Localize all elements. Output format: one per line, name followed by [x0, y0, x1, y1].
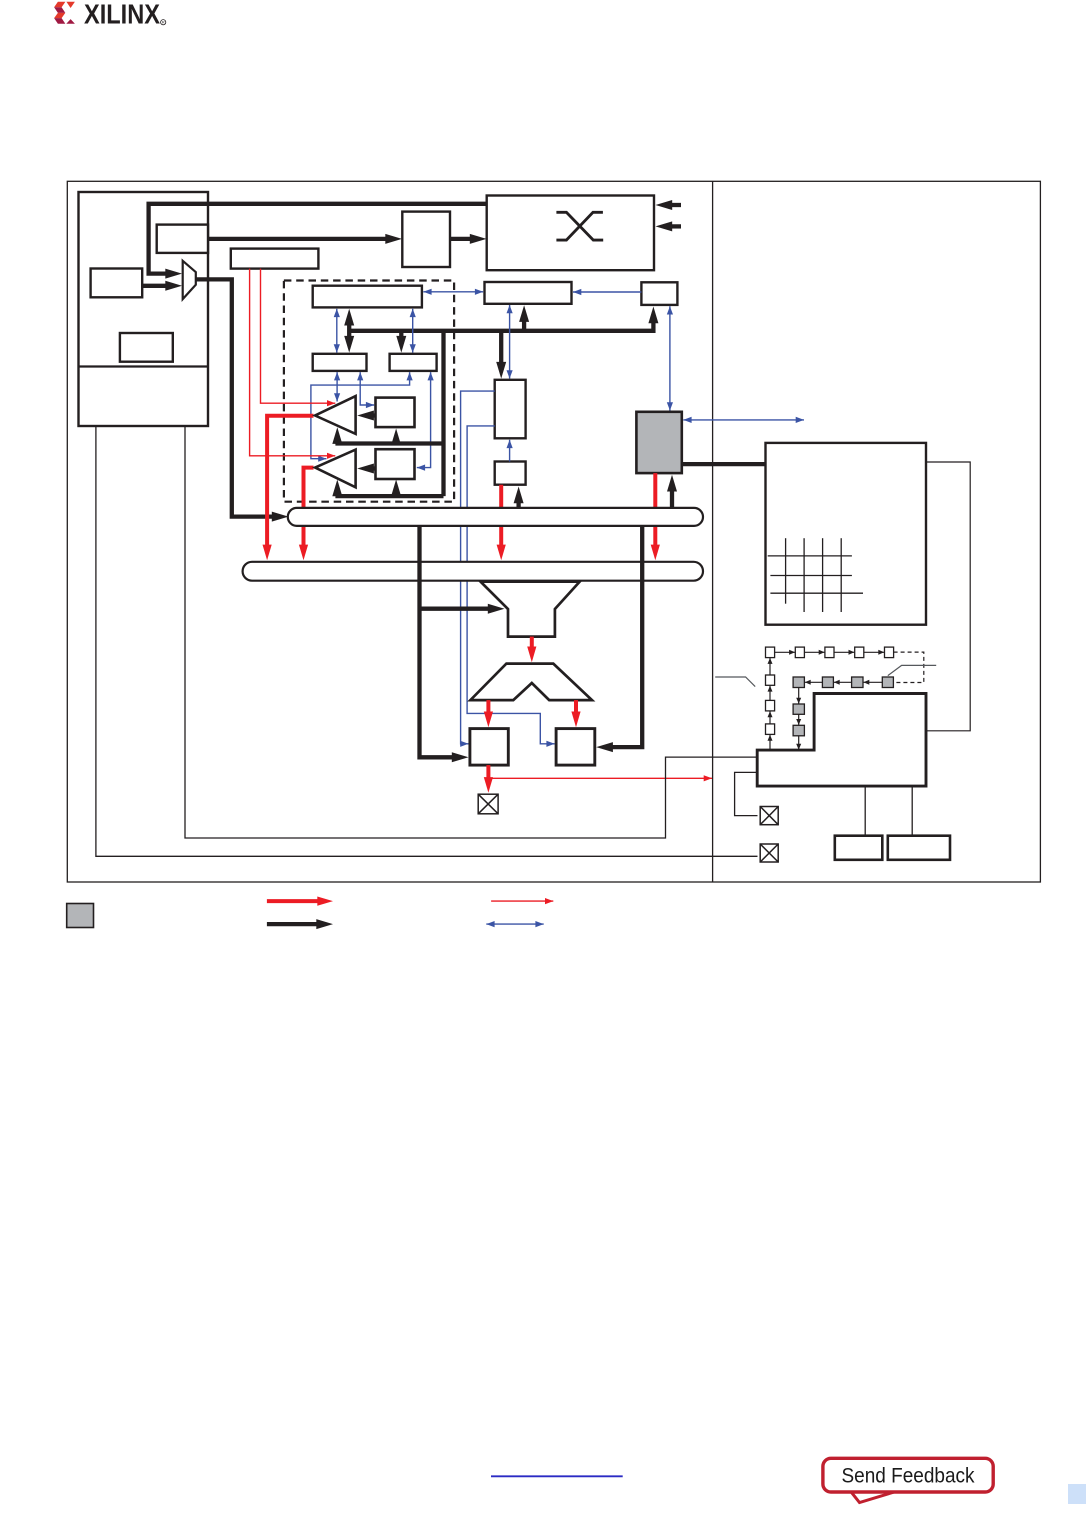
block: input buffer box inside left block	[91, 269, 143, 298]
wire: crossbar to clock mux input 1	[149, 204, 487, 274]
node: gray buffer chain vertical column	[793, 704, 804, 736]
wire: blue net A tall divider to output box left	[461, 391, 495, 744]
wire: dashed connector from white chain to gray chain	[894, 652, 924, 682]
Xilinx logo wordmark	[84, 0, 166, 30]
legend: thin red arrow sample	[491, 900, 553, 902]
wire: red arrow small divider down to bus 2	[499, 485, 503, 546]
legend: gray block swatch	[67, 904, 94, 928]
wire: red arrow funnel to chevron mux	[530, 637, 534, 648]
wire: thin net from left block bottom to pad X right lower	[96, 426, 758, 856]
wire: clock mux output down to clock bus 1	[196, 279, 273, 516]
wire: pre-divider to crossbar	[450, 237, 471, 241]
wire: up arrow into lower VCO bottom	[394, 493, 398, 498]
wire: port box to pre-divider box	[208, 237, 386, 241]
wire: thick red clock into lower PFD and down to bus 2	[304, 468, 314, 546]
wire: lower feedback line under triangle	[335, 494, 443, 498]
wire: up arrow into upper triangle bottom	[335, 441, 339, 446]
node: gray buffer chain horizontal row	[793, 677, 893, 688]
op-amp: lower PFD triangle	[315, 450, 356, 488]
wire: thick clock bus inside dashed region to divider box	[349, 323, 653, 331]
wire: thin net from left block bottom to region control box	[185, 426, 757, 838]
wire: label leader line right	[888, 665, 936, 675]
wire: thin backdrop rectangle right of matrix box	[926, 462, 970, 731]
node: white buffer chain vertical column	[766, 675, 775, 734]
wire: label leader line left	[715, 677, 755, 687]
dashed box: PLL region	[284, 281, 454, 502]
block: clock switch matrix box (right region)	[766, 443, 927, 625]
wire: thick vertical feedback line in dashed region	[441, 331, 445, 496]
bus: horizontal clock bus 2 (capsule)	[243, 562, 703, 581]
wire: up arrow into upper VCO bottom	[394, 442, 398, 447]
wire: thick black branch arrow into funnel mux	[420, 607, 489, 611]
divider inside left block	[79, 365, 209, 367]
wire: thick black net bus1 down to output box right	[612, 526, 642, 747]
footer: hyperlink underline	[491, 1475, 623, 1477]
svg-text:Send Feedback: Send Feedback	[842, 1465, 975, 1488]
wire: thin red DRP line to upper PFD triangle	[261, 269, 336, 404]
block: region control box (stepped outline)	[757, 694, 926, 787]
block: pre-divider box (top middle)	[402, 212, 450, 267]
block: tall divider box (middle column)	[495, 380, 526, 439]
wire: blue net status right to lower VCO box	[417, 372, 431, 468]
wire: blue updown arrow status left to PFD triangle	[336, 372, 338, 401]
figure vertical divider	[712, 181, 714, 882]
wire: blue bidir arrow gray block to right region	[683, 419, 804, 421]
wire: blue bidir arrow divider select to gray block	[669, 306, 671, 410]
wire: thick black net bus1 down to output box left	[420, 526, 453, 757]
svg-text:XILINX: XILINX	[84, 0, 160, 30]
block: bottom box A	[835, 836, 883, 860]
wire: arrows between white chain squares	[775, 651, 885, 653]
wire: crossbar external input stub 2	[672, 224, 682, 228]
wire: thick down arrow bus to tall divider box	[499, 331, 503, 363]
block: clock control box (right of dashed region)	[485, 282, 572, 304]
block: output driver box left	[470, 729, 508, 766]
block: divider select box (small, top right)	[641, 282, 677, 305]
wire: thick red clock into upper PFD and down to bus 2	[267, 416, 313, 546]
wire: blue bidir arrow clock control to tall divider box	[509, 305, 511, 379]
wire: thin net region control box to pad X right upper	[735, 772, 758, 815]
block: status box left (in dashed region)	[313, 354, 367, 371]
block: lower VCO box	[376, 449, 415, 479]
block: PLL control box (top of dashed region)	[313, 286, 422, 308]
wire: blue net status right to lower PFD triangle	[311, 372, 410, 459]
wire: upper VCO to PFD triangle arrow	[373, 413, 375, 417]
wire: thick down arrow bus to right status box	[399, 331, 403, 337]
legend: thick black arrow sample	[267, 922, 317, 926]
wire: red arrow gray block down to bus 2	[653, 473, 657, 545]
block: gray clock gate block	[636, 412, 681, 473]
wire: blue bidir arrow PLL control to clock control	[423, 291, 483, 293]
wire: thick up arrow bus to middle config box	[522, 321, 526, 331]
block: status box right (in dashed region)	[390, 354, 437, 371]
op-amp: upper PFD triangle	[315, 396, 356, 434]
icon: switch matrix grid	[768, 538, 863, 612]
wire: upper feedback line under triangle	[335, 441, 443, 445]
mux: funnel-shaped clock mux	[481, 582, 580, 637]
block: small divider box below	[495, 462, 526, 485]
wire: red arrow output box left down to pad	[486, 765, 490, 778]
wire: blue updown arrow control-status left	[336, 309, 338, 353]
wire: lower VCO to PFD triangle arrow	[373, 466, 375, 470]
footer: page number highlight box	[1068, 1484, 1086, 1504]
block: bottom box B	[888, 836, 950, 860]
pad: X symbol right lower	[760, 844, 778, 862]
wire: thin red DRP line to lower PFD triangle	[250, 269, 336, 456]
icon: crossbar X symbol	[556, 212, 603, 240]
wire: region control box to bottom box A	[864, 786, 866, 836]
block: clock crossbar switch	[487, 196, 654, 271]
wire: up arrows in white column	[769, 658, 771, 750]
svg-text:R: R	[162, 20, 165, 25]
node: white buffer chain horizontal row	[766, 647, 894, 658]
Xilinx logo mark	[54, 2, 75, 24]
wire: red arrow chevron to output box right	[574, 700, 578, 712]
wire: buffer box to clock mux input 2	[142, 284, 166, 288]
wire: thick line gray block to switch matrix box	[682, 462, 766, 466]
wire: blue net B tall divider to output box right	[467, 426, 555, 744]
wire: black arrow bus 1 up to gray block	[670, 491, 674, 508]
block: upper VCO box	[376, 398, 415, 428]
wire: blue arrow small divider up to tall divider	[509, 440, 511, 462]
wire: crossbar external input stub 1	[672, 203, 682, 207]
legend: blue double arrow sample	[486, 923, 543, 925]
block: port tab box inside left block	[157, 225, 208, 253]
wire: up arrow into lower triangle bottom	[335, 493, 339, 498]
wire: thin red line to right region	[488, 777, 712, 779]
wire: black arrow bus 1 up to small divider	[516, 503, 520, 508]
block: output driver box right	[556, 729, 595, 766]
wire: left arrows between gray chain squares	[805, 681, 883, 683]
wire: blue arrow divider select to clock control	[573, 291, 641, 293]
bus: horizontal clock bus 1 (capsule)	[288, 508, 703, 526]
pad: output pad X symbol	[478, 794, 498, 814]
block: DRP config box (right of left block)	[231, 249, 319, 269]
wire: red arrow chevron to output box left	[486, 700, 490, 712]
block: control box inside left block	[120, 333, 173, 362]
wire: down arrows in gray column	[798, 688, 800, 750]
wire: blue line status left to upper VCO box	[360, 372, 374, 405]
wire: thick bidirectional arrow control box to status box	[347, 325, 351, 337]
wire: blue updown arrow control-status right	[412, 309, 414, 353]
footer: send feedback button	[823, 1458, 993, 1492]
mux: reference clock mux	[183, 261, 196, 299]
figure outer frame	[67, 181, 1040, 882]
legend: thick red arrow sample	[267, 899, 318, 903]
block: transceiver channel (left tall box)	[79, 192, 209, 426]
wire: region control box to bottom box B	[911, 786, 913, 836]
pad: X symbol right upper	[760, 807, 778, 825]
footer: send feedback button tail	[850, 1491, 899, 1503]
mux: chevron-shaped output mux	[470, 664, 592, 701]
